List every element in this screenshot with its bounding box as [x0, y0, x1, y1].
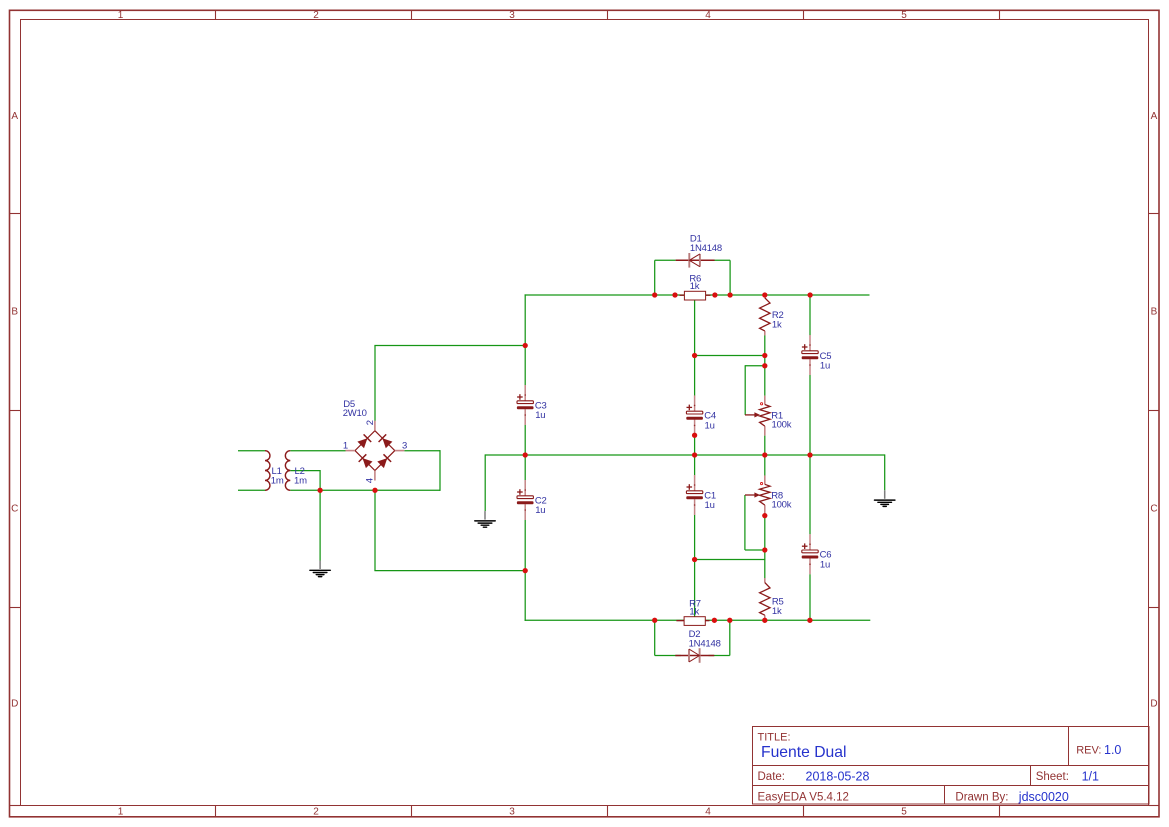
diode D2 — [675, 629, 720, 663]
svg-text:100k: 100k — [772, 419, 792, 430]
svg-text:Drawn By:: Drawn By: — [955, 792, 1008, 804]
title block text TITLE — [758, 732, 847, 762]
node bottom rail junctions — [652, 618, 813, 623]
ground — [475, 511, 495, 527]
svg-text:1u: 1u — [535, 410, 545, 421]
wire C2 bottom to negative rail corner — [525, 520, 871, 621]
wire mid rail to right ground — [884, 454, 886, 490]
wire C1 row to R5 top — [695, 559, 765, 579]
capacitor C5 — [802, 335, 832, 375]
svg-text:Sheet:: Sheet: — [1036, 771, 1069, 783]
svg-text:4: 4 — [365, 478, 376, 483]
wire C1 bottom — [694, 515, 696, 560]
wire positive rail top — [525, 294, 870, 385]
svg-text:1u: 1u — [535, 505, 545, 516]
resistor R2 — [760, 293, 784, 335]
svg-text:jdsc0020: jdsc0020 — [1018, 790, 1069, 804]
svg-text:1N4148: 1N4148 — [690, 243, 722, 254]
svg-text:1m: 1m — [271, 476, 284, 487]
wire AC input bottom — [238, 489, 265, 491]
wire center tap to ground — [319, 490, 321, 560]
ground — [875, 490, 895, 506]
wire C4 row to R1 top — [695, 355, 765, 357]
title block text REV — [1076, 743, 1121, 757]
title block text Date — [758, 769, 870, 783]
wire D2 right stub — [709, 620, 730, 655]
svg-text:1: 1 — [118, 807, 124, 818]
svg-text:C: C — [11, 504, 18, 515]
svg-text:A: A — [11, 111, 18, 122]
node C3 top junction — [523, 343, 528, 348]
resistor R6 — [680, 273, 711, 300]
node C2 bottom junction — [523, 568, 528, 573]
node R1 wiper junction — [762, 363, 767, 368]
svg-text:B: B — [1151, 307, 1158, 318]
node C1 bottom junction — [692, 557, 697, 562]
wire AC input top — [238, 450, 265, 452]
potentiometer R8 — [745, 475, 792, 514]
svg-text:EasyEDA V5.4.12: EasyEDA V5.4.12 — [758, 792, 849, 804]
wire R1 bottom segment — [764, 436, 766, 455]
svg-text:D: D — [11, 699, 18, 710]
wire C3 to C2 mid — [524, 425, 526, 480]
node bridge pin 4 junction — [372, 488, 377, 493]
wire bridge pin 3 loop — [404, 450, 440, 491]
title block text Sheet — [1036, 769, 1099, 783]
bridge rectifier D5 — [343, 399, 407, 483]
wire R1 wiper loop — [745, 365, 765, 415]
svg-text:1u: 1u — [705, 500, 715, 511]
svg-text:1m: 1m — [294, 476, 307, 487]
svg-text:1u: 1u — [820, 559, 830, 570]
wire C1 top — [694, 455, 696, 475]
svg-text:1u: 1u — [820, 360, 830, 371]
svg-text:4: 4 — [705, 10, 711, 21]
wire R8 wiper loop — [745, 495, 765, 550]
ground — [310, 561, 330, 577]
wire bridge pin 4 down to negative node — [374, 490, 525, 570]
wire C6 column — [809, 455, 811, 620]
potentiometer R1 — [745, 396, 792, 436]
diode D1 — [676, 234, 722, 268]
svg-text:2: 2 — [365, 420, 376, 425]
node R8 wiper junction — [762, 547, 767, 552]
svg-text:100k: 100k — [772, 499, 792, 510]
svg-text:1k: 1k — [690, 281, 700, 292]
svg-text:5: 5 — [901, 10, 907, 21]
title block text Drawn By — [955, 790, 1068, 804]
wire mid rail to left ground — [484, 454, 486, 511]
svg-text:3: 3 — [509, 10, 515, 21]
inductor L2 — [285, 451, 307, 491]
svg-text:1k: 1k — [772, 606, 782, 617]
wire mid rail — [485, 454, 885, 456]
capacitor C3 — [517, 385, 547, 425]
capacitor C4 — [686, 395, 716, 435]
capacitor C2 — [517, 480, 547, 520]
node center tap junction — [317, 488, 322, 493]
svg-text:C: C — [1150, 504, 1157, 515]
node top rail junctions — [652, 292, 813, 297]
wire C4 bottom — [694, 435, 696, 455]
inductor L1 — [265, 451, 284, 491]
wire L2 center tap — [290, 470, 320, 490]
node R8 bottom junction — [762, 513, 767, 518]
svg-text:1u: 1u — [705, 421, 715, 432]
svg-text:2018-05-28: 2018-05-28 — [806, 769, 870, 783]
svg-text:1: 1 — [343, 441, 348, 452]
wire L2 bottom to bridge pin 4 net — [290, 489, 440, 491]
svg-text:1.0: 1.0 — [1104, 743, 1121, 757]
capacitor C1 — [686, 475, 716, 515]
wire C1 column to R7 — [694, 560, 696, 621]
node C4 bottom junction — [692, 433, 697, 438]
title block text EasyEDA version — [758, 792, 849, 804]
svg-text:Fuente Dual: Fuente Dual — [761, 744, 846, 761]
wire L2 top to bridge pin 1 — [290, 450, 345, 452]
svg-text:B: B — [11, 307, 18, 318]
node C4 top junction — [692, 353, 697, 358]
title block — [753, 727, 1150, 805]
wire R8 bottom segment — [764, 515, 766, 560]
svg-text:D: D — [1150, 699, 1157, 710]
svg-text:3: 3 — [402, 441, 407, 452]
capacitor C6 — [802, 534, 832, 574]
wire R2 bottom segment — [764, 335, 766, 366]
svg-text:2W10: 2W10 — [343, 408, 367, 419]
node R1 top junction — [762, 353, 767, 358]
svg-text:5: 5 — [901, 807, 907, 818]
svg-text:2: 2 — [313, 807, 319, 818]
svg-text:4: 4 — [705, 807, 711, 818]
resistor R5 — [760, 578, 784, 620]
svg-text:1k: 1k — [689, 607, 699, 618]
svg-text:3: 3 — [509, 807, 515, 818]
wire D2 left stub — [655, 620, 681, 655]
svg-text:1N4148: 1N4148 — [689, 638, 721, 649]
node mid rail junctions — [692, 452, 813, 457]
svg-text:Date:: Date: — [758, 771, 786, 783]
svg-text:1: 1 — [118, 10, 124, 21]
wire D1 right stub — [714, 260, 730, 295]
frame row labels — [11, 111, 1158, 710]
frame column labels — [118, 10, 908, 818]
node mid rail C3 junction — [523, 452, 528, 457]
svg-text:2: 2 — [313, 10, 319, 21]
wire R8 top segment — [764, 455, 766, 476]
wire C5 column — [809, 295, 811, 455]
wire C4 column upper — [694, 296, 696, 396]
svg-text:1k: 1k — [772, 320, 782, 331]
resistor R7 — [676, 599, 709, 626]
wire bridge pin 2 to C3 top rail — [374, 346, 525, 421]
svg-text:TITLE:: TITLE: — [758, 732, 791, 744]
svg-text:REV:: REV: — [1076, 745, 1101, 757]
svg-text:A: A — [1151, 111, 1158, 122]
svg-text:1/1: 1/1 — [1082, 769, 1099, 783]
wire R1 top segment — [764, 366, 766, 396]
wire D1 left stub — [655, 260, 676, 295]
